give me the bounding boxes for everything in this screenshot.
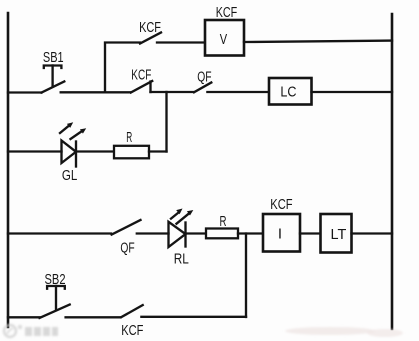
resistor R (row 3) — [114, 146, 149, 159]
wire R to I box with junction — [238, 232, 263, 234]
resistor R (row 4) — [206, 229, 238, 239]
svg-text:KCF: KCF — [121, 322, 143, 339]
wire left rail to SB1 — [8, 91, 42, 93]
wire row4-to-row5 vertical connector — [245, 234, 247, 318]
svg-text:QF: QF — [120, 239, 134, 256]
wire LT to right rail — [352, 232, 393, 234]
wire SB2 to KCF row5 — [66, 316, 121, 318]
wire QF to RL — [137, 232, 169, 234]
wire I to LT — [300, 232, 321, 234]
wire KCF to QF row2 — [151, 91, 194, 93]
wire left rail to QF row4 — [8, 232, 111, 234]
wire row1 to V box — [157, 41, 205, 43]
svg-text:KCF: KCF — [270, 196, 292, 213]
contact KCF (row 2, normally open) — [131, 81, 152, 93]
svg-text:SB1: SB1 — [43, 49, 64, 66]
svg-text:GL: GL — [62, 167, 77, 184]
contact QF (row 2, normally open) — [194, 83, 211, 93]
watermark logo — [4, 325, 58, 337]
relay coil V (voltage element) — [205, 20, 244, 56]
relay coil I (current element) — [263, 214, 300, 252]
svg-text:KCF: KCF — [131, 67, 151, 84]
push button SB1 — [42, 66, 65, 93]
wire QF to LC box — [207, 91, 269, 93]
relay coil LT — [321, 214, 352, 253]
wire V box to right rail — [244, 41, 392, 42]
contact KCF (row 5, normally open) — [121, 305, 143, 317]
svg-text:RL: RL — [174, 250, 189, 267]
wire SB1 to KCF row2 — [61, 91, 131, 93]
wire KCF row5 to junction — [141, 316, 246, 318]
contact KCF (row 1, normally open) — [140, 33, 161, 44]
svg-text:R: R — [220, 213, 227, 230]
svg-text:V: V — [220, 31, 227, 48]
svg-text:KCF: KCF — [139, 19, 161, 36]
right rail — [391, 14, 394, 329]
wire R up to row2 — [149, 150, 167, 152]
faint pink smudge bottom right — [285, 327, 403, 337]
relay coil LC — [269, 78, 312, 105]
svg-text:I: I — [278, 226, 282, 243]
left rail — [7, 13, 10, 327]
svg-text:SB2: SB2 — [45, 271, 66, 288]
push button SB2 — [40, 286, 70, 318]
LED RL — [169, 209, 194, 248]
svg-text:QF: QF — [197, 68, 211, 85]
svg-text:LT: LT — [331, 226, 347, 243]
svg-text:R: R — [126, 129, 132, 146]
LED GL — [60, 122, 86, 166]
svg-text:LC: LC — [280, 83, 296, 100]
wire left rail to SB2 — [8, 316, 40, 318]
wire RL to R row4 — [186, 232, 207, 234]
wire GL to R — [76, 150, 114, 152]
wire row1-to-row2 vertical connector — [105, 43, 140, 93]
svg-text:KCF: KCF — [216, 4, 238, 21]
contact QF (row 4, normally open) — [112, 220, 141, 235]
wire row2-to-row3 vertical connector — [165, 92, 167, 152]
wire LC to right rail — [312, 91, 393, 93]
wire left rail to GL — [8, 150, 62, 152]
